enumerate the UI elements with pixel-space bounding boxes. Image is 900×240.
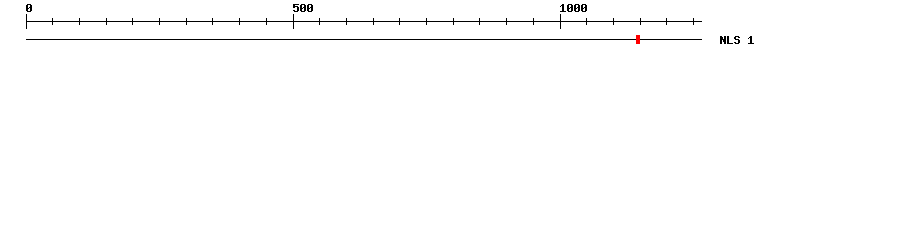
ruler minor tick x=266 bbox=[266, 18, 267, 25]
ruler minor tick x=212 bbox=[212, 18, 213, 25]
ruler label "1000" bbox=[560, 4, 587, 12]
ruler label "500" bbox=[293, 4, 313, 12]
motif marker NLS 1 (red) bbox=[636, 35, 640, 44]
ruler minor tick x=159 bbox=[159, 18, 160, 25]
ruler major tick 1000 bbox=[560, 14, 561, 29]
ruler minor tick x=506 bbox=[506, 18, 507, 25]
ruler minor tick x=479 bbox=[479, 18, 480, 25]
ruler axis line bbox=[26, 21, 702, 22]
ruler minor tick x=239 bbox=[239, 18, 240, 25]
ruler major tick 0 bbox=[26, 14, 27, 29]
ruler minor tick x=426 bbox=[426, 18, 427, 25]
track label "NLS 1" bbox=[720, 36, 754, 44]
ruler minor tick x=79 bbox=[79, 18, 80, 25]
ruler minor tick x=346 bbox=[346, 18, 347, 25]
background bbox=[0, 0, 900, 58]
ruler minor tick x=640 bbox=[640, 18, 641, 25]
ruler minor tick x=533 bbox=[533, 18, 534, 25]
ruler minor tick x=373 bbox=[373, 18, 374, 25]
ruler minor tick x=613 bbox=[613, 18, 614, 25]
ruler minor tick x=693 bbox=[693, 18, 694, 25]
ruler minor tick x=52 bbox=[52, 18, 53, 25]
ruler minor tick x=132 bbox=[132, 18, 133, 25]
ruler minor tick x=106 bbox=[106, 18, 107, 25]
ruler minor tick x=186 bbox=[186, 18, 187, 25]
ruler minor tick x=319 bbox=[319, 18, 320, 25]
ruler label "0" bbox=[26, 4, 32, 12]
ruler minor tick x=666 bbox=[666, 18, 667, 25]
ruler minor tick x=453 bbox=[453, 18, 454, 25]
sequence track line NLS 1 bbox=[26, 39, 702, 40]
ruler major tick 500 bbox=[293, 14, 294, 29]
ruler minor tick x=586 bbox=[586, 18, 587, 25]
ruler minor tick x=399 bbox=[399, 18, 400, 25]
